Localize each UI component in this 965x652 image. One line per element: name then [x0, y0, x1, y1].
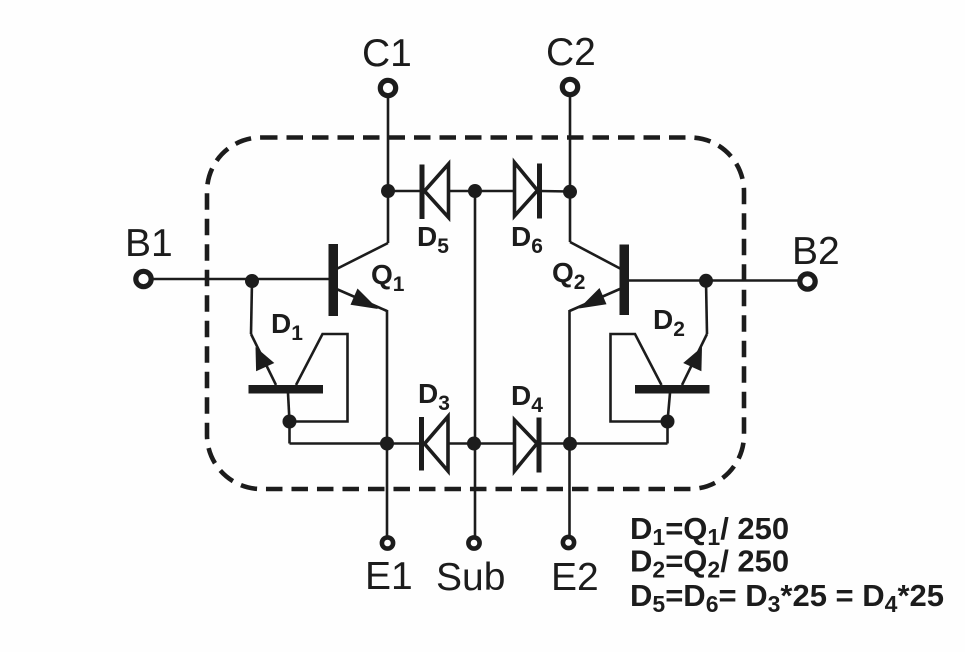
svg-text:B1: B1: [125, 222, 173, 265]
svg-text:C1: C1: [362, 32, 412, 75]
svg-text:Sub: Sub: [436, 556, 505, 599]
svg-text:E2: E2: [551, 556, 599, 599]
svg-text:C2: C2: [546, 31, 596, 74]
svg-text:B2: B2: [792, 230, 840, 273]
svg-text:E1: E1: [365, 555, 413, 598]
svg-text:D5=D6= D3*25 = D4*25: D5=D6= D3*25 = D4*25: [630, 578, 944, 617]
